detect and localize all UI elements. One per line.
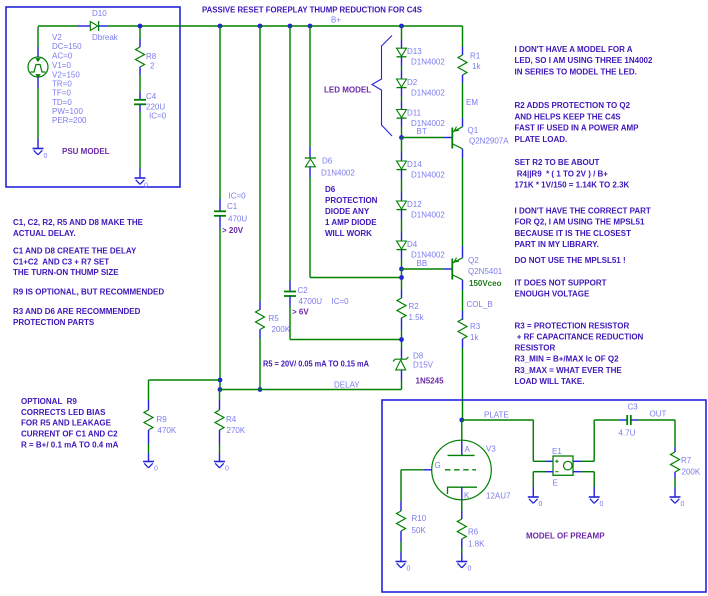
note block optional R9 (21, 397, 119, 450)
label D14 (407, 160, 445, 180)
svg-text:C3: C3 (628, 403, 639, 412)
label C3 (619, 403, 639, 438)
svg-text:ENOUGH VOLTAGE: ENOUGH VOLTAGE (515, 290, 590, 299)
svg-text:BT: BT (417, 127, 427, 136)
pin stub C3 right (631, 419, 638, 421)
wire DELAY (220, 389, 402, 391)
wire bus to R8 (139, 26, 141, 39)
svg-text:R4||R9 * ( 1 TO 2V ) / B+: R4||R9 * ( 1 TO 2V ) / B+ (515, 169, 609, 178)
caption LED MODEL (324, 85, 371, 94)
label D8 (413, 352, 434, 370)
node OUT label (650, 410, 667, 419)
svg-text:IC=0: IC=0 (229, 192, 247, 201)
svg-text:470U: 470U (228, 215, 247, 224)
svg-text:K: K (464, 491, 470, 500)
controlled source E1 (VCVS) (553, 456, 573, 475)
wire cathode to R6 (461, 500, 463, 511)
svg-text:> 6V: > 6V (292, 308, 309, 317)
wire R5 to DELAY (259, 338, 261, 390)
resistor R10 (397, 511, 406, 531)
ground 0 under R10 (396, 562, 411, 573)
svg-text:D15V: D15V (413, 361, 434, 370)
wire R6 to ground (461, 548, 463, 553)
svg-text:C2: C2 (298, 286, 309, 295)
pin stub D12 anode (401, 192, 403, 201)
svg-text:R5 = 20V/ 0.05 mA TO 0.15 mA: R5 = 20V/ 0.05 mA TO 0.15 mA (263, 360, 369, 369)
node COL_B label (467, 300, 493, 309)
svg-text:R10: R10 (412, 514, 427, 523)
pin stub Q1 base (444, 137, 452, 139)
svg-text:BECAUSE IT IS THE CLOSEST: BECAUSE IT IS THE CLOSEST (515, 229, 632, 238)
diode D4 (397, 241, 407, 250)
node EM label (466, 98, 478, 107)
wire R10 to ground (400, 542, 402, 552)
wire R2 to D8 node (401, 330, 403, 348)
label R9 (157, 415, 177, 435)
label Q2 (468, 256, 503, 276)
svg-text:0: 0 (144, 183, 148, 190)
wire R3 to PLATE (462, 348, 464, 420)
svg-text:D13: D13 (407, 47, 422, 56)
wire V2 top to bus corner (38, 26, 78, 47)
brace LED model group (372, 36, 392, 137)
note block left (delay explanation) (13, 218, 164, 327)
wire E1 -input to ground (533, 472, 545, 487)
pin stub D11 anode (401, 101, 403, 110)
pin stub R6 top (461, 511, 463, 519)
ground 0 under E1 input (528, 497, 543, 508)
pin stub V2 bottom (37, 77, 39, 88)
diode D14 (397, 161, 407, 170)
svg-text:AND HELPS KEEP THE C4S: AND HELPS KEEP THE C4S (515, 112, 622, 121)
svg-text:1.5k: 1.5k (409, 313, 425, 322)
svg-text:B+: B+ (331, 16, 341, 25)
wire Q2 collector to R3 (462, 290, 464, 311)
svg-text:200K: 200K (272, 325, 291, 334)
svg-text:V3: V3 (486, 445, 496, 454)
junction C1/DELAY wire (218, 387, 223, 392)
ground 0 under R4 (214, 462, 229, 473)
svg-text:50K: 50K (412, 526, 427, 535)
diode D12 (397, 201, 407, 210)
pin stub C2 top (289, 281, 291, 292)
svg-text:D1N4002: D1N4002 (411, 171, 445, 180)
svg-text:OPTIONAL R9: OPTIONAL R9 (21, 397, 77, 406)
svg-text:1 AMP DIODE: 1 AMP DIODE (325, 218, 377, 227)
svg-text:470K: 470K (158, 426, 177, 435)
svg-text:R3_MAX = WHAT EVER THE: R3_MAX = WHAT EVER THE (515, 366, 623, 375)
node B+ label (331, 16, 341, 25)
svg-text:D1N4002: D1N4002 (321, 169, 355, 178)
svg-text:CORRECTS LED BIAS: CORRECTS LED BIAS (21, 408, 106, 417)
wire grid to R10 (401, 470, 424, 501)
pin stub R1 bottom (462, 75, 464, 83)
node DELAY label (334, 381, 360, 390)
svg-text:LED MODEL: LED MODEL (324, 85, 371, 94)
capacitor C3 (627, 415, 631, 425)
label R4 (226, 415, 246, 435)
svg-text:C1: C1 (227, 202, 238, 211)
svg-text:TF=0: TF=0 (52, 89, 71, 98)
label E1 (552, 447, 562, 488)
wire B+ bus (108, 25, 463, 27)
diode D6 (points up) (305, 158, 316, 167)
pin stub D10 cathode (99, 25, 108, 27)
wire R7 to ground (674, 478, 676, 487)
svg-text:D1N4002: D1N4002 (411, 58, 445, 67)
svg-text:DO NOT USE THE MPLSL51 !: DO NOT USE THE MPLSL51 ! (515, 256, 626, 265)
label D2 (407, 78, 445, 98)
svg-text:0: 0 (539, 501, 543, 508)
svg-text:IC=0: IC=0 (149, 112, 167, 121)
caption MODEL OF PREAMP (526, 532, 605, 541)
svg-text:MODEL OF PREAMP: MODEL OF PREAMP (526, 532, 605, 541)
junction C1/R9 wire (218, 378, 223, 383)
svg-text:+ RF CAPACITANCE REDUCTION: + RF CAPACITANCE REDUCTION (515, 332, 644, 341)
svg-text:R3 = PROTECTION RESISTOR: R3 = PROTECTION RESISTOR (515, 321, 630, 330)
svg-text:I DON'T HAVE A MODEL FOR A: I DON'T HAVE A MODEL FOR A (515, 45, 633, 54)
svg-text:D1N4002: D1N4002 (411, 89, 445, 98)
label C2 (298, 286, 350, 306)
wire PLATE to tube anode (461, 420, 463, 441)
svg-text:R9 IS OPTIONAL, BUT RECOMMENDE: R9 IS OPTIONAL, BUT RECOMMENDED (13, 288, 164, 297)
svg-text:R2 ADDS PROTECTION TO Q2: R2 ADDS PROTECTION TO Q2 (515, 101, 631, 110)
label C1 (227, 202, 247, 224)
ground 0 under R7 (670, 497, 685, 508)
resistor R9 (144, 410, 153, 430)
svg-text:171K * 1V/150 = 1.14K TO 2.3K: 171K * 1V/150 = 1.14K TO 2.3K (515, 180, 630, 189)
pin stub to ground 0 (C4) (139, 168, 141, 178)
svg-text:1k: 1k (472, 62, 481, 71)
resistor R8 (136, 47, 145, 67)
junction bus/C2 (288, 24, 293, 29)
svg-text:0: 0 (468, 566, 472, 573)
pin stub to ground 0 (E1 -out) (593, 487, 595, 497)
svg-text:V2=150: V2=150 (52, 71, 80, 80)
svg-text:200K: 200K (682, 468, 701, 477)
svg-text:4.7U: 4.7U (619, 429, 636, 438)
pin stub C2 bottom (289, 296, 291, 306)
resistor R6 (457, 519, 466, 539)
svg-text:PLATE LOAD.: PLATE LOAD. (515, 135, 568, 144)
svg-text:LED, SO I AM USING THREE 1N400: LED, SO I AM USING THREE 1N4002 (515, 56, 654, 65)
pin stub D8 cathode (401, 348, 403, 359)
svg-text:FOR R5 AND LEAKAGE: FOR R5 AND LEAKAGE (21, 419, 112, 428)
pin stub R4 bottom (219, 430, 221, 444)
svg-text:D6: D6 (325, 185, 336, 194)
pin stub D4 anode (401, 232, 403, 241)
pin stub R7 top (674, 447, 676, 452)
wire bus to D13 (401, 26, 403, 40)
label R2 (409, 302, 425, 322)
pin stub R2 top (401, 289, 403, 298)
svg-text:C4: C4 (146, 92, 157, 101)
svg-text:1.8K: 1.8K (468, 540, 485, 549)
svg-text:1N5245: 1N5245 (416, 377, 445, 386)
label D11 (407, 109, 445, 129)
svg-text:V1=0: V1=0 (52, 61, 71, 70)
wire BB to Q2 base (402, 268, 445, 270)
wire D2 to D11 (401, 96, 403, 101)
pin stub D4 cathode (401, 250, 403, 259)
wire E1 output to C3 (581, 420, 620, 461)
label R3 (470, 322, 481, 342)
pin stub to ground 0 (R4) (219, 453, 221, 462)
svg-text:R2: R2 (409, 302, 420, 311)
wire bus corner to R1 (462, 26, 464, 47)
svg-text:D4: D4 (407, 240, 418, 249)
label C4 (146, 92, 167, 121)
diode D2 (397, 79, 407, 88)
pin stub R2 bottom (401, 318, 403, 330)
svg-text:D12: D12 (407, 200, 422, 209)
label Dbreak (92, 33, 119, 42)
node BT label (417, 127, 427, 136)
pin stub V2 top (37, 47, 39, 57)
svg-text:DIODE ANY: DIODE ANY (325, 207, 370, 216)
pin stub tube grid (424, 469, 432, 471)
svg-text:R3_MIN = B+/MAX Ic OF Q2: R3_MIN = B+/MAX Ic OF Q2 (515, 355, 620, 364)
wire bus to D6 (309, 26, 311, 147)
resistor R1 (458, 55, 467, 75)
pin stub R8 bottom (139, 67, 141, 75)
pin stub Q1 collector (462, 149, 464, 158)
svg-text:R7: R7 (681, 456, 692, 465)
svg-text:R9: R9 (157, 415, 168, 424)
zener diode D8 (points up) (393, 357, 408, 370)
pin stub C1 top (219, 199, 221, 211)
transistor Q2 Q2N5401 (PNP) (452, 258, 462, 280)
label tube pins (435, 445, 471, 500)
wire D6 to BB column (310, 177, 402, 278)
svg-text:12AU7: 12AU7 (486, 492, 511, 501)
svg-text:R1: R1 (470, 52, 481, 61)
svg-text:4700U: 4700U (299, 297, 323, 306)
svg-text:R6: R6 (468, 528, 479, 537)
label 1N5245 (416, 377, 445, 386)
ground 0 under V2 (33, 149, 48, 161)
svg-text:E1: E1 (552, 447, 562, 456)
svg-text:270K: 270K (227, 426, 246, 435)
pin stub C1 bottom (219, 216, 221, 228)
pin stub to ground 0 (E1 -in) (532, 487, 534, 497)
svg-text:Q1: Q1 (468, 126, 479, 135)
preamp model enclosure box (382, 400, 706, 592)
svg-text:2: 2 (150, 62, 155, 71)
svg-text:V2: V2 (52, 33, 62, 42)
label R5 (269, 314, 291, 334)
junction bus/C1 (218, 24, 223, 29)
wire BB to D6 tap (401, 269, 403, 289)
resistor R3 (458, 319, 467, 339)
capacitor C4 (134, 100, 146, 105)
label D6 (321, 157, 355, 178)
label Q1 (468, 126, 510, 146)
ground 0 under R9 (143, 462, 158, 473)
svg-text:DELAY: DELAY (334, 381, 360, 390)
resistor R5 (256, 310, 265, 330)
junction bus/LED string (399, 24, 404, 29)
junction R5/DELAY (258, 387, 263, 392)
pin stub D14-D12 (401, 170, 403, 179)
svg-text:0: 0 (681, 501, 685, 508)
svg-text:R3 AND D6 ARE RECOMMENDED: R3 AND D6 ARE RECOMMENDED (13, 307, 141, 316)
svg-text:D11: D11 (407, 109, 422, 118)
label IC=0 (C1) (229, 192, 247, 201)
svg-text:150Vceo: 150Vceo (469, 279, 502, 288)
label D4 (407, 240, 445, 260)
svg-text:0: 0 (225, 466, 229, 473)
pin stub Q2 collector (462, 280, 464, 290)
wire bus to C1 (219, 26, 221, 199)
svg-text:A: A (465, 445, 471, 454)
pin stub Q1 emitter (462, 118, 464, 127)
junction BB column / D6 wire (399, 275, 404, 280)
junction bus/R8 (138, 24, 143, 29)
svg-text:R = B+/ 0.1 mA TO 0.4 mA: R = B+/ 0.1 mA TO 0.4 mA (21, 441, 119, 450)
capacitor C2 (284, 292, 296, 297)
pin stub to ground 0 (R7) (674, 487, 676, 497)
svg-text:FOR Q2, I AM USING THE MPSL51: FOR Q2, I AM USING THE MPSL51 (515, 218, 645, 227)
pin stub R3 bottom (462, 339, 464, 348)
svg-text:EM: EM (466, 98, 478, 107)
svg-text:FAST IF USED IN A POWER AMP: FAST IF USED IN A POWER AMP (515, 124, 640, 133)
wire R4 to ground (219, 444, 221, 453)
svg-text:Q2N5401: Q2N5401 (468, 267, 503, 276)
diode D13 (397, 48, 407, 57)
svg-text:PER=200: PER=200 (52, 116, 87, 125)
wire to R9 (149, 380, 221, 400)
pin stub E1 +output (573, 460, 581, 462)
svg-text:0: 0 (154, 466, 158, 473)
pin stub R8 top (139, 39, 141, 47)
V2 parameter labels (52, 33, 87, 125)
label D10 (92, 9, 107, 18)
pin stub D6 anode (309, 167, 311, 177)
capacitor C1 (214, 211, 226, 216)
svg-text:RESISTOR: RESISTOR (515, 344, 556, 353)
resistor R4 (215, 410, 224, 430)
junction R2/C2/D8 node (399, 337, 404, 342)
svg-text:PSU MODEL: PSU MODEL (62, 147, 110, 156)
pin stub to ground 0 (R10) (400, 552, 402, 562)
pin stub E1 -input (546, 471, 554, 473)
note block D6 protection (325, 185, 378, 238)
pin stub D10 anode (78, 25, 90, 27)
wire R9 to ground (148, 444, 150, 453)
pin stub C3 left (620, 419, 627, 421)
diode D10 Dbreak (90, 21, 98, 31)
svg-text:WILL WORK: WILL WORK (325, 229, 372, 238)
note > 20V (222, 226, 244, 235)
pin stub tube anode (461, 441, 463, 455)
svg-text:0: 0 (44, 153, 48, 160)
transistor Q1 Q2N2907A (PNP) (452, 127, 462, 149)
junction bus/D6 (308, 24, 313, 29)
note R5 sizing (263, 360, 369, 369)
svg-text:R3: R3 (470, 322, 481, 331)
label R10 (412, 514, 427, 535)
wire R1 to Q1 emitter (462, 83, 464, 118)
pin stub R7 bottom (674, 472, 676, 478)
svg-text:Q2: Q2 (468, 256, 479, 265)
svg-text:0: 0 (600, 501, 604, 508)
ground 0 under R6 (456, 562, 471, 573)
note block right column (515, 45, 654, 386)
wire bus to C2 (289, 26, 291, 281)
pin stub D2-D11 (401, 88, 403, 96)
svg-text:PART IN MY LIBRARY.: PART IN MY LIBRARY. (515, 240, 599, 249)
pin stub Q2 emitter (462, 246, 464, 258)
schematic title (202, 6, 423, 15)
label D13 (407, 47, 445, 66)
svg-text:IN SERIES TO MODEL THE LED.: IN SERIES TO MODEL THE LED. (515, 67, 637, 76)
label V3 (486, 445, 511, 501)
voltage source V2 (VPULSE) (28, 57, 48, 77)
svg-text:PROTECTION PARTS: PROTECTION PARTS (13, 318, 95, 327)
svg-text:Dbreak: Dbreak (92, 33, 119, 42)
ground 0 under C4 (135, 178, 149, 190)
pin stub D8 anode (401, 370, 403, 380)
note 150Vceo (469, 279, 502, 288)
svg-text:LOAD WILL TAKE.: LOAD WILL TAKE. (515, 377, 585, 386)
wire BT to Q1 base (402, 137, 445, 139)
triode V3 12AU7 (432, 440, 492, 500)
svg-text:AC=0: AC=0 (52, 52, 73, 61)
svg-text:PROTECTION: PROTECTION (325, 196, 378, 205)
pin stub tube cathode (461, 487, 463, 500)
pin stub D14 anode (401, 152, 403, 161)
svg-text:0: 0 (407, 566, 411, 573)
svg-text:D10: D10 (92, 9, 107, 18)
wire D14 to D12 (401, 179, 403, 192)
wire BT to D14 (401, 138, 403, 153)
svg-text:220U: 220U (146, 103, 165, 112)
wire C4 to ground (139, 112, 141, 168)
wire Q1 collector to Q2 emitter (462, 158, 464, 246)
svg-text:C1+C2 AND C3 + R7 SET: C1+C2 AND C3 + R7 SET (13, 258, 109, 267)
pin stub D13 anode (401, 40, 403, 48)
pin stub D12-D4 (401, 210, 403, 219)
wire C1 to lower junctions (219, 228, 221, 390)
pin stub D2 anode (401, 71, 403, 79)
svg-text:1k: 1k (470, 333, 479, 342)
label R7 (681, 456, 701, 477)
svg-text:D8: D8 (413, 352, 424, 361)
svg-text:G: G (435, 461, 441, 470)
svg-text:D2: D2 (407, 78, 418, 87)
resistor R7 (671, 452, 680, 472)
svg-text:OUT: OUT (650, 410, 667, 419)
pin stub R1 top (462, 47, 464, 55)
pin stub R10 top (400, 501, 402, 511)
wire E1 -output to ground (581, 472, 594, 487)
PSU model enclosure box (6, 7, 180, 187)
ground 0 under E1 output (589, 497, 604, 508)
svg-text:R8: R8 (146, 52, 157, 61)
wire D12 to D4 (401, 219, 403, 232)
svg-text:Q2N2907A: Q2N2907A (469, 137, 509, 146)
junction node BT (399, 135, 404, 140)
svg-text:TD=0: TD=0 (52, 98, 72, 107)
label R8 value (146, 52, 157, 71)
svg-text:ACTUAL DELAY.: ACTUAL DELAY. (13, 229, 76, 238)
pin stub to ground 0 (V2) (37, 138, 39, 148)
label R1 (470, 52, 481, 72)
node BB label (417, 259, 428, 268)
junction bus/R5 (258, 24, 263, 29)
svg-text:D14: D14 (407, 160, 422, 169)
